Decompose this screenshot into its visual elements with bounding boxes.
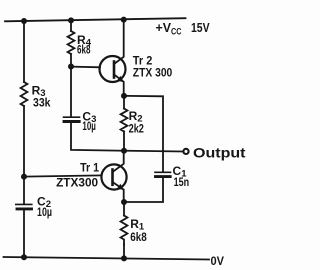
wire base node down to C3 — [70, 67, 72, 118]
svg-text:2k2: 2k2 — [129, 124, 144, 136]
label R4 — [77, 33, 92, 49]
node C2 / 0V rail junction — [21, 254, 27, 260]
svg-text:15n: 15n — [174, 177, 190, 189]
node Tr2 base / R4 / C3 junction — [68, 64, 74, 70]
svg-text:15V: 15V — [191, 21, 210, 35]
capacitor C3 — [64, 117, 80, 121]
wire top supply rail — [5, 18, 186, 21]
wire Tr2 emitter node to right branch — [124, 96, 163, 172]
wire Tr1 base — [24, 175, 102, 176]
svg-text:R: R — [130, 217, 139, 231]
wire output line — [124, 150, 183, 153]
transistor Q Tr2 — [100, 20, 126, 96]
transistor Q Tr1 — [101, 151, 126, 202]
wire left rail upper (top rail to R3) — [23, 21, 25, 82]
wire R1 top lead — [123, 202, 125, 216]
svg-text:0V: 0V — [211, 254, 225, 268]
node Tr2 emitter / R2 junction — [121, 93, 127, 99]
resistor R3 — [21, 82, 28, 106]
node top rail / Tr2 collector junction — [121, 17, 127, 23]
svg-text:CC: CC — [171, 27, 182, 37]
node top rail / R4 junction — [68, 17, 74, 23]
resistor R4 — [68, 31, 75, 54]
svg-text:Output: Output — [193, 144, 246, 160]
svg-text:33k: 33k — [33, 98, 51, 110]
svg-text:R: R — [32, 84, 41, 98]
svg-text:ZTX 300: ZTX 300 — [133, 66, 173, 80]
node R1 / 0V rail junction — [121, 255, 127, 261]
resistor R1 — [121, 216, 128, 245]
node Tr1 base / R3 / C2 junction — [21, 174, 27, 180]
svg-text:10µ: 10µ — [37, 207, 52, 219]
label C3 — [82, 109, 96, 125]
node R2 / Tr1 collector / output junction — [121, 148, 127, 154]
label R1 — [130, 217, 145, 233]
wire R4 bottom lead to base node — [70, 54, 72, 67]
output terminal circle — [183, 149, 188, 154]
wire R2 bottom lead — [123, 132, 125, 151]
svg-text:6k8: 6k8 — [130, 232, 147, 244]
wire C3 to output line — [71, 123, 124, 151]
svg-text:1: 1 — [139, 221, 145, 232]
wire left rail lower (C2 to 0V rail) — [23, 210, 25, 257]
wire C1 bottom to Tr1 emitter node — [124, 178, 163, 202]
node Tr1 emitter / R1 / C1 junction — [121, 199, 127, 205]
wire R2 top lead — [123, 96, 125, 109]
label R2 — [129, 109, 143, 125]
node top rail / left rail junction — [21, 18, 27, 24]
wire Tr2 base — [71, 66, 100, 69]
svg-text:ZTX300: ZTX300 — [56, 176, 98, 190]
svg-text:C: C — [173, 164, 182, 178]
label C2 — [37, 194, 51, 210]
capacitor C2 — [16, 204, 32, 209]
svg-text:+V: +V — [156, 21, 172, 35]
capacitor C1 — [155, 172, 171, 176]
svg-text:10µ: 10µ — [82, 121, 96, 133]
label R3 — [32, 84, 46, 100]
label C1 — [173, 164, 188, 180]
svg-text:Tr 1: Tr 1 — [80, 160, 99, 174]
resistor R2 — [121, 109, 128, 132]
wire left rail middle (R3 to Tr1 base node) — [23, 106, 25, 204]
svg-text:6k8: 6k8 — [77, 45, 91, 57]
label +VCC 15V — [156, 21, 211, 37]
wire bottom 0V rail — [4, 257, 210, 260]
svg-text:R: R — [129, 109, 138, 123]
wire R4 top lead — [70, 20, 72, 31]
wire R1 bottom lead — [123, 245, 125, 259]
